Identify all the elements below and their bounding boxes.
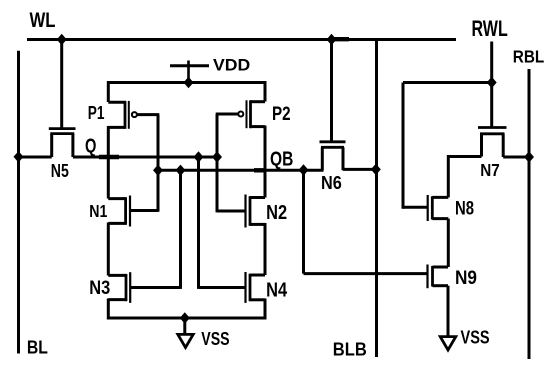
svg-text:N9: N9 [455, 267, 477, 289]
svg-text:BLB: BLB [333, 340, 367, 361]
svg-text:WL: WL [30, 9, 56, 32]
svg-text:P1: P1 [88, 102, 105, 123]
svg-text:N1: N1 [89, 201, 107, 221]
svg-text:N4: N4 [266, 280, 288, 302]
svg-text:N8: N8 [455, 199, 474, 220]
svg-text:RBL: RBL [513, 47, 545, 67]
svg-text:P2: P2 [272, 104, 291, 125]
svg-text:Q: Q [85, 136, 96, 158]
svg-text:N7: N7 [480, 160, 500, 180]
svg-text:RWL: RWL [472, 16, 508, 41]
svg-text:N2: N2 [266, 202, 287, 224]
svg-text:N6: N6 [321, 172, 342, 193]
svg-text:N5: N5 [51, 161, 69, 181]
svg-text:QB: QB [270, 149, 293, 171]
svg-text:VDD: VDD [213, 55, 250, 74]
svg-text:VSS: VSS [201, 328, 229, 349]
svg-text:BL: BL [27, 338, 48, 359]
svg-text:N3: N3 [89, 277, 110, 299]
svg-text:VSS: VSS [461, 326, 490, 347]
